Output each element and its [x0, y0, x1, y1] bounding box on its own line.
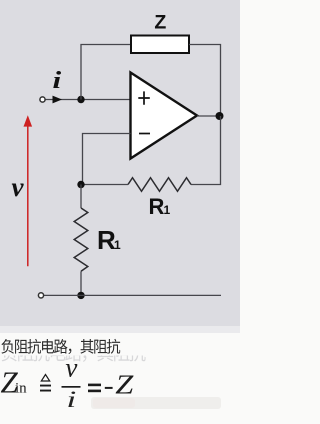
svg-text:v: v [12, 172, 25, 202]
node B junction [77, 181, 84, 188]
wire node B down [80, 185, 82, 209]
caption chinese text [1, 339, 120, 354]
formula equals [88, 384, 101, 387]
svg-text:R: R [149, 194, 165, 219]
svg-text:v: v [65, 353, 77, 383]
resistor R1 feedback zigzag [128, 178, 191, 192]
wire bottom rail [44, 294, 221, 296]
terminal input top [40, 97, 45, 102]
wire Z to right rail [189, 45, 221, 117]
wire feedback down [191, 116, 221, 185]
wire inverting input [83, 134, 131, 185]
wire op-amp output [197, 115, 221, 117]
svg-text:1: 1 [114, 238, 121, 252]
node A junction [77, 96, 84, 103]
wire input top [45, 99, 131, 101]
op-amp U1 [131, 73, 198, 159]
wire R1 shunt to bottom [80, 271, 82, 295]
op-amp plus input mark [138, 91, 150, 104]
wire R1 feedback to node B [81, 184, 128, 186]
resistor R1 shunt zigzag [74, 208, 88, 271]
node output junction [216, 112, 224, 120]
voltage arrow v [27, 126, 29, 267]
current direction arrowhead [53, 96, 63, 104]
svg-text:i: i [53, 67, 62, 94]
watermark blur bottom right [91, 397, 221, 409]
svg-text:1: 1 [164, 203, 171, 217]
terminal input bottom [38, 293, 43, 298]
svg-text:in: in [15, 381, 27, 397]
svg-text:Z: Z [115, 369, 133, 400]
op-amp minus input mark [139, 133, 150, 135]
node bottom junction [77, 292, 84, 299]
svg-text:Z: Z [154, 11, 166, 33]
schematic background [0, 0, 240, 326]
svg-text:i: i [66, 387, 76, 412]
wire node A up to Z [81, 45, 131, 100]
impedance Z box [131, 36, 189, 54]
formula delta-equal sign [41, 375, 49, 382]
formula minus Z [105, 387, 113, 389]
